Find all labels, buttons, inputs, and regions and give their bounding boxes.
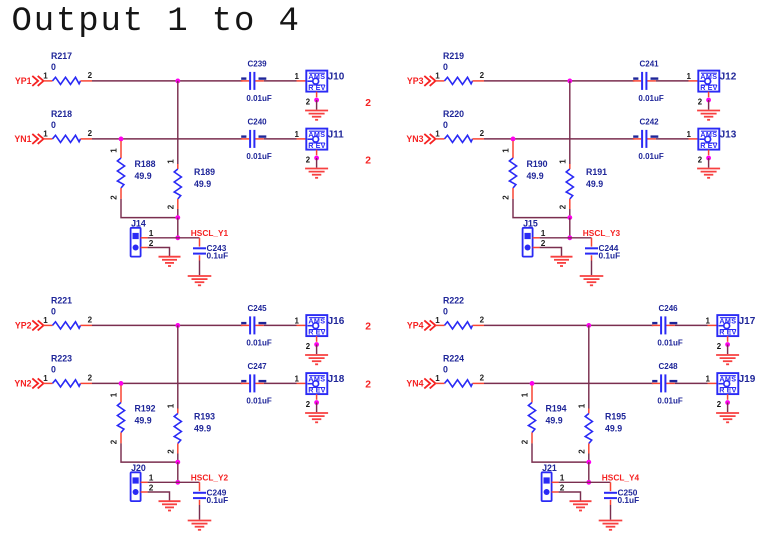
wire [569,81,571,164]
junction [706,98,711,103]
J14 pin 2 [141,247,148,249]
svg-text:2: 2 [365,379,371,390]
ground [716,355,739,364]
capacitor C247 [241,374,264,392]
svg-text:2: 2 [560,482,565,492]
C246 pin marks [652,322,677,324]
connector J19 [717,373,738,395]
capacitor C242 [633,130,656,148]
svg-text:YN2: YN2 [14,379,31,389]
YP3 pin 1 label [435,72,440,81]
R222 value label 0 [443,307,448,317]
R192 refdes label [135,403,156,413]
svg-text:2: 2 [88,316,93,325]
J21 pin 1 label [560,473,565,483]
wire [177,209,179,218]
svg-text:J20: J20 [131,463,146,473]
svg-text:1: 1 [502,148,511,153]
C244 value label [599,251,621,261]
off-page ref 2 [365,379,371,390]
svg-text:HSCL_Y2: HSCL_Y2 [191,472,229,482]
capacitor C250 [604,482,617,505]
ground [305,169,328,178]
junction [567,235,572,240]
jumper J14 [131,228,141,257]
svg-text:0.1uF: 0.1uF [599,251,621,261]
svg-text:R224: R224 [443,354,464,364]
svg-text:YN1: YN1 [14,134,31,144]
R219 refdes label [443,51,464,61]
resistor R195 [585,409,592,454]
R223 value label 0 [51,365,56,375]
wire [316,100,318,110]
ground [697,169,720,178]
J15 refdes label [523,219,538,229]
wire [316,403,318,413]
J12 pin 1 label [687,72,692,81]
wire [177,218,179,238]
C249 refdes label [207,487,227,497]
YP1 pin 1 label [43,72,48,81]
svg-text:2: 2 [698,155,703,164]
ground [716,413,739,422]
C248 refdes label [659,362,679,371]
svg-text:2: 2 [365,322,371,333]
wire [727,345,729,355]
C243 value label [207,251,229,261]
wire [540,237,570,239]
C243 refdes label [207,243,227,253]
port YN3 [406,134,435,144]
junction [567,215,572,220]
J18 pin 2 [306,394,317,409]
R194 pin 2 label [521,439,530,444]
R195 refdes label [605,412,626,422]
wire [316,158,318,168]
svg-text:1: 1 [706,374,711,383]
svg-text:0: 0 [51,120,56,130]
svg-text:0: 0 [443,365,448,375]
svg-text:2: 2 [149,482,154,492]
svg-text:YP1: YP1 [15,76,32,86]
svg-text:C242: C242 [640,118,660,127]
svg-text:49.9: 49.9 [194,179,211,189]
R193 pin 2 label [166,449,175,454]
YN2 pin 1 label [43,374,48,383]
svg-text:R223: R223 [51,354,72,364]
junction [586,460,591,465]
svg-text:YP4: YP4 [407,321,424,331]
ground [697,111,720,120]
R221 refdes label [51,296,72,306]
J19 pin 1 label [706,374,711,383]
svg-text:R193: R193 [194,412,215,422]
capacitor C248 [652,374,675,392]
svg-text:2: 2 [717,400,722,409]
wire [199,505,201,520]
R222 refdes label [443,296,464,306]
R190 refdes label [527,159,548,169]
R194 value label [546,415,563,425]
jumper J15 [523,228,533,257]
J20 pin 1 label [149,473,154,483]
net label HSCL_Y2 [191,472,229,482]
wire [540,248,562,257]
junction [511,137,516,142]
svg-text:C247: C247 [248,362,268,371]
ground [159,501,181,510]
junction [119,381,124,386]
port YP1 [15,76,44,86]
svg-text:YP2: YP2 [15,321,32,331]
J11 pin 2 [306,150,317,165]
wire [708,100,710,110]
jumper J20 [131,472,141,501]
title Output 1 to 4 [12,3,301,41]
junction [314,156,319,161]
svg-text:J16: J16 [328,316,345,327]
net label HSCL_Y4 [602,472,640,482]
wire [264,382,306,384]
junction [119,137,124,142]
R195 value label [605,424,622,434]
C250 refdes label [618,487,638,497]
R188 pin 1 label [110,148,119,153]
svg-text:0.01uF: 0.01uF [246,338,271,347]
R218 value label 0 [51,120,56,130]
J18 refdes label [328,374,345,385]
svg-text:1: 1 [110,392,119,397]
wire [591,261,593,276]
wire [148,492,170,501]
svg-text:HSCL_Y4: HSCL_Y4 [602,472,640,482]
J18 pin 1 label [295,374,300,383]
wire [569,218,571,238]
svg-text:R191: R191 [586,167,607,177]
YP4 pin 1 label [435,316,440,325]
J12 pin 2 [698,92,709,107]
svg-text:2: 2 [110,195,119,200]
ground [551,257,573,266]
resistor R192 [117,385,124,443]
svg-text:1: 1 [43,130,48,139]
svg-text:2: 2 [166,449,175,454]
wire [264,80,306,82]
R191 pin 2 label [558,204,567,209]
R195 pin 1 label [577,403,586,408]
svg-text:Output 1 to 4: Output 1 to 4 [12,3,301,41]
junction [530,381,535,386]
svg-text:R217: R217 [51,51,72,61]
svg-text:2: 2 [577,449,586,454]
R221 pin 2 label [88,316,93,325]
C239 pin marks [241,77,266,79]
capacitor C249 [193,482,206,505]
svg-text:2: 2 [88,71,93,80]
R189 pin 1 label [166,159,175,164]
R194 refdes label [546,403,567,413]
wire [92,382,242,384]
svg-text:R194: R194 [546,403,567,413]
wire [588,325,590,408]
svg-text:2: 2 [365,155,371,166]
wire [264,138,306,140]
svg-text:2: 2 [502,195,511,200]
svg-text:49.9: 49.9 [135,171,152,181]
R223 pin 2 label [88,374,93,383]
net label HSCL_Y1 [191,228,229,238]
junction [314,98,319,103]
junction [725,400,730,405]
svg-text:1: 1 [521,392,530,397]
svg-text:1: 1 [166,403,175,408]
wire [199,261,201,276]
wire [589,481,611,483]
ground [580,276,604,285]
J11 refdes label [328,130,345,141]
J14 pin 1 label [149,228,154,238]
resistor R221 [43,322,92,329]
J16 pin 2 [306,336,317,351]
J15 pin 1 [533,237,540,239]
svg-text:2: 2 [480,374,485,383]
wire [177,325,179,408]
wire [569,209,571,218]
J10 pin 2 [306,92,317,107]
ground [570,501,592,510]
svg-text:0: 0 [51,62,56,72]
J20 pin 2 label [149,482,154,492]
resistor R219 [435,77,484,84]
svg-text:1: 1 [435,316,440,325]
junction [175,215,180,220]
wire [92,80,242,82]
C247 refdes label [248,362,268,371]
svg-text:J21: J21 [542,463,557,473]
svg-text:R220: R220 [443,109,464,119]
svg-text:2: 2 [110,439,119,444]
connector J11 [306,129,327,151]
J20 pin 2 [141,491,148,493]
svg-text:0.1uF: 0.1uF [207,495,229,505]
svg-text:J13: J13 [720,130,737,141]
port YN2 [14,378,43,388]
C240 value label [246,152,271,161]
J10 pin 1 label [295,72,300,81]
C246 refdes label [659,304,679,313]
svg-text:2: 2 [149,238,154,248]
junction [725,342,730,347]
wire [484,382,653,384]
R195 pin 2 label [577,449,586,454]
svg-text:R188: R188 [135,159,156,169]
svg-text:1: 1 [435,374,440,383]
resistor R224 [435,380,484,387]
capacitor C240 [241,130,264,148]
svg-text:2: 2 [480,71,485,80]
svg-text:2: 2 [306,342,311,351]
R191 refdes label [586,167,607,177]
J14 pin 1 [141,237,148,239]
svg-text:2: 2 [541,238,546,248]
wire [177,462,179,482]
svg-text:HSCL_Y3: HSCL_Y3 [583,228,621,238]
J15 pin 2 [533,247,540,249]
R192 value label [135,415,152,425]
R192 pin 2 label [110,439,119,444]
R221 value label 0 [51,307,56,317]
svg-text:R219: R219 [443,51,464,61]
svg-text:49.9: 49.9 [135,415,152,425]
svg-text:1: 1 [149,473,154,483]
svg-text:2: 2 [698,97,703,106]
connector J17 [717,315,738,337]
jumper J21 [542,472,552,501]
wire [177,81,179,164]
wire [121,199,178,218]
ground [159,257,181,266]
R220 value label 0 [443,120,448,130]
svg-text:R222: R222 [443,296,464,306]
wire [177,454,179,463]
svg-text:1: 1 [435,130,440,139]
svg-text:0: 0 [443,307,448,317]
C247 value label [246,396,271,405]
C245 pin marks [241,322,266,324]
wire [656,138,698,140]
svg-text:2: 2 [166,204,175,209]
junction [314,342,319,347]
wire [610,505,612,520]
ground [305,413,328,422]
junction [586,323,591,328]
junction [175,460,180,465]
resistor R217 [43,77,92,84]
R224 pin 2 label [480,374,485,383]
YN1 pin 1 label [43,130,48,139]
J19 refdes label [739,374,756,385]
connector J13 [698,129,719,151]
C245 refdes label [248,304,268,313]
svg-text:J15: J15 [523,219,538,229]
svg-text:1: 1 [295,72,300,81]
svg-text:C245: C245 [248,304,268,313]
svg-text:R195: R195 [605,412,626,422]
wire [559,481,589,483]
svg-text:0: 0 [51,307,56,317]
svg-text:0.01uF: 0.01uF [246,152,271,161]
svg-text:1: 1 [43,72,48,81]
YN3 pin 1 label [435,130,440,139]
svg-text:YN4: YN4 [406,379,423,389]
net label HSCL_Y3 [583,228,621,238]
R224 value label 0 [443,365,448,375]
svg-text:2: 2 [306,97,311,106]
wire [92,138,242,140]
svg-text:1: 1 [577,403,586,408]
svg-text:0.1uF: 0.1uF [207,251,229,261]
J11 pin 1 label [295,130,300,139]
wire [675,324,717,326]
wire [178,237,200,239]
J21 pin 1 [552,481,559,483]
R189 refdes label [194,167,215,177]
R188 value label [135,171,152,181]
J16 pin 1 label [295,316,300,325]
resistor R194 [528,385,535,443]
svg-text:0: 0 [443,120,448,130]
svg-text:1: 1 [560,473,565,483]
C240 pin marks [241,135,266,137]
R219 pin 2 label [480,71,485,80]
junction [175,235,180,240]
wire [588,454,590,463]
svg-text:2: 2 [521,439,530,444]
R193 value label [194,424,211,434]
YP2 pin 1 label [43,316,48,325]
junction [567,79,572,84]
wire [316,345,318,355]
R189 value label [194,179,211,189]
svg-text:J10: J10 [328,72,345,83]
wire [178,481,200,483]
J14 refdes label [131,219,146,229]
junction [175,480,180,485]
port YN4 [406,378,435,388]
wire [484,80,634,82]
wire [264,324,306,326]
resistor R193 [174,409,181,454]
off-page ref 2 [365,322,371,333]
svg-text:J17: J17 [739,316,756,327]
R220 pin 2 label [480,129,485,138]
svg-text:R221: R221 [51,296,72,306]
R222 pin 2 label [480,316,485,325]
svg-text:YP3: YP3 [407,76,424,86]
capacitor C243 [193,238,206,261]
R190 pin 2 label [502,195,511,200]
C246 value label [657,338,682,347]
svg-text:2: 2 [480,316,485,325]
C240 refdes label [248,118,268,127]
svg-text:1: 1 [687,130,692,139]
capacitor C246 [652,316,675,334]
C242 refdes label [640,118,660,127]
svg-text:49.9: 49.9 [527,171,544,181]
wire [484,324,653,326]
port YP2 [15,320,44,330]
wire [148,248,170,257]
wire [588,462,590,482]
J13 refdes label [720,130,737,141]
port YP3 [407,76,436,86]
svg-text:49.9: 49.9 [586,179,603,189]
ground [305,355,328,364]
svg-text:1: 1 [43,316,48,325]
ground [599,521,623,530]
resistor R223 [43,380,92,387]
R218 pin 2 label [88,129,93,138]
wire [708,158,710,168]
J17 pin 2 [717,336,728,351]
J17 pin 1 label [706,316,711,325]
C248 value label [657,396,682,405]
svg-text:R189: R189 [194,167,215,177]
svg-text:C246: C246 [659,304,679,313]
svg-text:0.1uF: 0.1uF [618,495,640,505]
svg-text:R190: R190 [527,159,548,169]
C245 value label [246,338,271,347]
